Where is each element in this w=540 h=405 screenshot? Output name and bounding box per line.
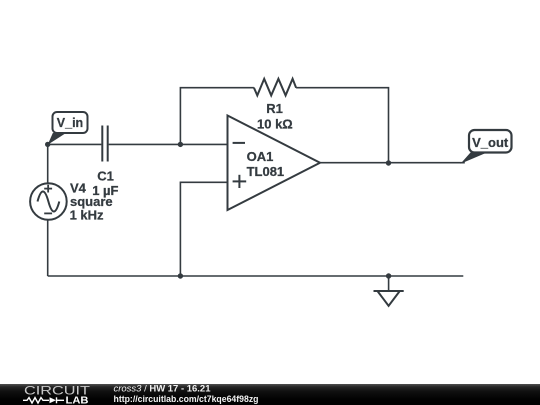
svg-text:V_in: V_in (57, 116, 83, 130)
svg-text:http://circuitlab.com/ct7kqe64: http://circuitlab.com/ct7kqe64f98zg (114, 394, 259, 404)
net flag V_in box (53, 112, 88, 133)
net flag V_in tail (48, 133, 66, 145)
op-amp inverting mark (233, 142, 245, 144)
node output junction (386, 160, 391, 165)
wire feedback right (resistor to output node) (296, 88, 388, 163)
net flag V_out tail (461, 153, 488, 164)
node ground junction (386, 273, 391, 278)
wire output (320, 162, 465, 164)
wire ground stub (388, 276, 390, 291)
svg-text:OA1: OA1 (247, 149, 274, 164)
wire input left segment (node to C1) (48, 143, 102, 145)
footer bar (0, 384, 540, 405)
wire non-inverting input (180, 182, 227, 276)
node input junction (45, 142, 50, 147)
voltage source V4 circle (30, 183, 67, 220)
svg-text:V_out: V_out (472, 135, 509, 150)
node rail junction (178, 273, 183, 278)
svg-text:cross3 / HW 17 - 16.21: cross3 / HW 17 - 16.21 (114, 384, 211, 394)
svg-text:TL081: TL081 (247, 164, 285, 179)
capacitor C1 (102, 126, 107, 162)
svg-text:R1: R1 (266, 101, 283, 116)
logo zigzag and diode (23, 397, 64, 403)
op-amp OA1 triangle (228, 116, 321, 211)
voltage source minus (44, 212, 52, 214)
svg-text:LAB: LAB (66, 395, 89, 405)
svg-text:C1: C1 (97, 168, 114, 183)
node feedback-input junction (178, 142, 183, 147)
wire feedback left vertical (180, 88, 254, 145)
svg-text:1 kHz: 1 kHz (70, 207, 104, 222)
ground symbol (374, 291, 404, 306)
wire source bottom lead (47, 220, 49, 276)
op-amp non-inverting mark (233, 175, 247, 188)
resistor R1 (254, 79, 296, 96)
svg-text:10 kΩ: 10 kΩ (257, 117, 293, 132)
voltage source sine glyph (38, 192, 60, 212)
net flag V_out box (469, 130, 512, 153)
wire input right segment (C1 to op-amp inverting input) (109, 143, 228, 145)
logo diode triangle (50, 397, 57, 403)
voltage source plus (44, 185, 52, 193)
wire bottom rail (48, 275, 464, 277)
wire source top lead (47, 144, 49, 183)
